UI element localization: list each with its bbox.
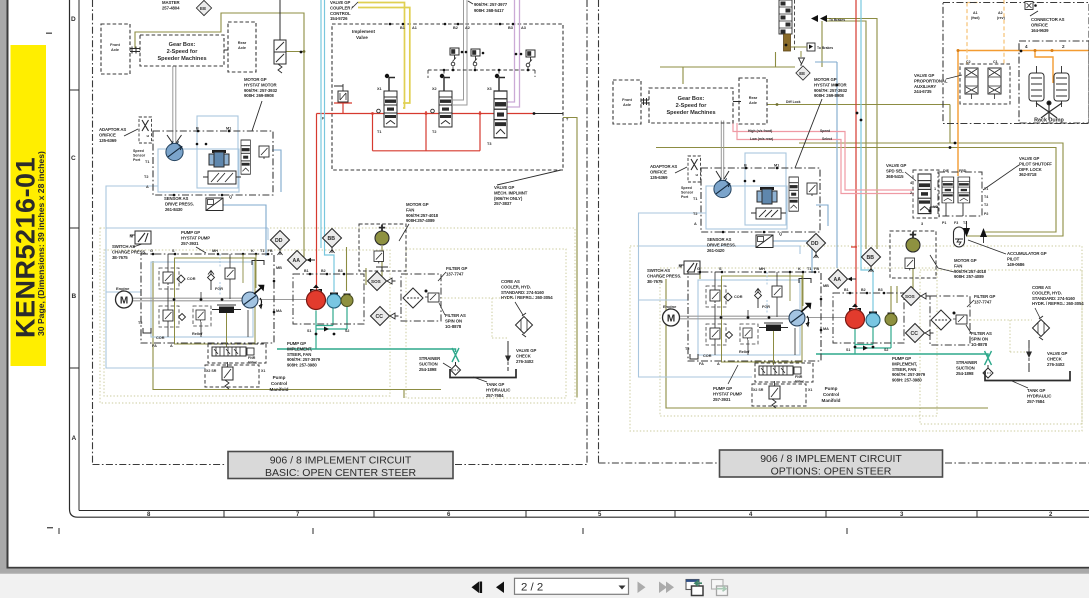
svg-text:K: K (251, 249, 254, 253)
svg-text:T1: T1 (693, 197, 697, 201)
ruler tick a (223, 511, 225, 518)
svg-text:X2: X2 (432, 87, 437, 91)
filter gp dash-dot box (401, 274, 441, 321)
left sheet border dash-dot left (92, 0, 94, 465)
svg-text:Q: Q (779, 232, 782, 236)
pilot shutoff spool 2 (958, 177, 970, 203)
left sheet border dash-dot right (586, 0, 588, 465)
gauge cyan circle (327, 293, 341, 309)
right motor box dots (722, 167, 779, 234)
svg-text:A: A (694, 222, 697, 226)
svg-text:M: M (667, 314, 675, 325)
node CC diamond right (906, 324, 934, 343)
right pump check diamond (755, 292, 762, 299)
wire light blue drain (106, 228, 268, 240)
leader spd sel (905, 172, 916, 181)
fnr valve block (212, 347, 254, 356)
sheet frame zone column line inner (79, 0, 1089, 511)
svg-text:BASIC: OPEN CENTER STEER: BASIC: OPEN CENTER STEER (265, 467, 417, 479)
filter diamond (403, 288, 423, 308)
proportional aux dashed box (960, 64, 1010, 104)
svg-text:Front: Front (110, 43, 120, 47)
svg-text:T2: T2 (138, 321, 142, 325)
wire teal arrow right (863, 346, 868, 351)
leader fan right (930, 255, 954, 272)
svg-text:2-Speed for: 2-Speed for (676, 103, 708, 109)
check valve symbol (505, 352, 511, 365)
left sheet border dash-dot bottom (93, 464, 588, 466)
leader adaptor right (675, 167, 687, 173)
node AA diamond (288, 251, 316, 270)
spool stem 1 (385, 74, 395, 91)
brake control valve (274, 40, 286, 73)
right pump valve upper (772, 286, 782, 299)
svg-text:Select: Select (822, 137, 833, 141)
wire to brake valve from top (279, 0, 281, 40)
svg-text:Valve: Valve (248, 361, 257, 365)
leader adaptor (124, 129, 138, 136)
solenoid drain circles (451, 62, 530, 67)
implement spool 1 (384, 91, 397, 127)
svg-text:A1: A1 (412, 26, 417, 30)
wire implement T link (534, 113, 563, 115)
implement port labels (377, 26, 526, 146)
left cor dashed sub-box 2 (159, 306, 179, 327)
svg-text:COR: COR (703, 354, 712, 358)
pump valve upper right (225, 268, 235, 281)
ruler tick b (373, 511, 375, 518)
right pump olive inner (790, 272, 803, 306)
implement solenoid 1 (450, 48, 459, 62)
shaft arrows (167, 135, 182, 143)
svg-text:B3: B3 (338, 269, 343, 273)
MH pilot dashed stub right (766, 272, 768, 314)
toolbar top divider (0, 573, 1089, 574)
right pump inner blue box (698, 280, 800, 355)
right servo olive drop (773, 331, 775, 365)
relief stub (334, 84, 343, 91)
fan motor symbol (375, 225, 389, 246)
svg-text:F3: F3 (954, 221, 958, 225)
right gauge red circle (846, 304, 865, 329)
svg-text:AA: AA (834, 277, 842, 283)
svg-text:Front: Front (622, 98, 632, 102)
right pump valve lower mid (743, 328, 752, 340)
wire brake stack down (800, 64, 802, 66)
svg-text:T3: T3 (487, 142, 491, 146)
right dotted olive tail frame (920, 270, 1082, 424)
right dotted olive outer frame (630, 246, 1082, 431)
svg-text:FB: FB (814, 267, 819, 271)
svg-text:T1: T1 (145, 160, 149, 164)
right motor control valve (751, 208, 786, 219)
right fan dashed box (890, 231, 936, 278)
wire teal suction main right (816, 354, 988, 356)
svg-text:T2: T2 (144, 175, 148, 179)
right pump inner olive box (722, 276, 803, 362)
right cor dashed sub-box 2 (706, 324, 726, 345)
svg-text:MA: MA (823, 327, 829, 331)
svg-text:FOR: FOR (215, 287, 223, 291)
wire yellow inner (358, 8, 410, 104)
leader pump label (196, 247, 206, 253)
page left border (7, 0, 9, 569)
right shaft arrows (716, 171, 729, 179)
svg-text:2: 2 (910, 191, 912, 195)
implement valve dashed box (332, 24, 563, 170)
node EE diamond right (796, 66, 810, 80)
svg-text:X1: X1 (808, 388, 812, 392)
svg-text:4: 4 (1025, 44, 1028, 49)
zone separator tick 2 (70, 227, 80, 229)
FB bracket (252, 261, 264, 266)
pilot shutoff stubs (930, 203, 963, 216)
node AA diamond right (829, 270, 857, 289)
right pump servo piston (759, 323, 788, 331)
junction dots left pump ports (152, 51, 346, 336)
switch symbol right (679, 261, 701, 274)
spd sel valve dashed box (913, 170, 939, 218)
leader cooler right (1035, 308, 1040, 318)
gauge group dash-dot box (293, 274, 364, 324)
flow arrow up (980, 228, 987, 237)
svg-text:B: B (72, 293, 77, 300)
leader switch (133, 244, 142, 247)
right filter diamond (931, 310, 951, 330)
node BB diamond (323, 229, 342, 254)
svg-text:Axle: Axle (749, 101, 757, 105)
svg-text:Relief: Relief (192, 332, 203, 336)
node BB diamond right (862, 248, 881, 273)
brake valve stack top right (779, 0, 792, 34)
svg-text:High (n/s front): High (n/s front) (748, 129, 772, 133)
right filter spin-on (953, 312, 968, 325)
svg-text:Rear: Rear (238, 41, 247, 45)
svg-text:MASTER257-4804: MASTER257-4804 (162, 0, 181, 10)
right FB bracket (799, 279, 811, 284)
cooler dotted links right (970, 320, 1032, 352)
junction dots implement ports (389, 23, 515, 26)
svg-text:Diff Lock: Diff Lock (786, 100, 801, 104)
svg-text:X2 SR: X2 SR (206, 369, 217, 373)
svg-text:DIF: DIF (943, 169, 950, 173)
svg-text:COR: COR (187, 277, 196, 281)
svg-text:FOR: FOR (762, 305, 770, 309)
right pump inner wires (715, 272, 795, 355)
svg-text:Axle: Axle (623, 103, 631, 107)
svg-text:X3: X3 (487, 87, 492, 91)
right travel motor circle (714, 178, 731, 197)
left motor box dots (173, 130, 231, 197)
fan control valve (374, 251, 384, 263)
print alignment tick 2 (312, 528, 314, 534)
leader tank (473, 377, 487, 382)
registration dash top-left (46, 33, 52, 34)
to brakes arrows upper (811, 15, 845, 22)
rear axle box (228, 22, 256, 72)
fan motor dashed box (359, 224, 406, 271)
svg-text:T4: T4 (984, 195, 988, 199)
right motor spool (789, 177, 798, 211)
node CC diamond (371, 307, 399, 326)
svg-text:X1: X1 (261, 369, 265, 373)
node EE diamond left (196, 0, 211, 15)
right vickers cylinder (757, 187, 777, 204)
rack dump spool 1 (1029, 73, 1044, 101)
hystat motor dash-dot box (153, 131, 273, 195)
right motor port labels (693, 164, 779, 227)
right pump port labels (697, 267, 829, 366)
arrow stubs (967, 221, 984, 243)
right gauge cyan circle (866, 312, 880, 328)
svg-text:BB: BB (328, 236, 336, 242)
wire brake to box (791, 47, 807, 57)
implement spool 3 (494, 91, 507, 138)
junction dot red 2 (425, 112, 428, 115)
svg-text:Engine: Engine (663, 304, 677, 309)
svg-text:A: A (72, 435, 77, 442)
wire olive big loop inner (656, 148, 1056, 233)
svg-text:G: G (697, 267, 700, 271)
implement spool 2 (439, 91, 452, 127)
motor spool (241, 140, 250, 174)
right fan control valve (905, 258, 915, 270)
svg-text:SOS: SOS (905, 294, 915, 299)
yellow sticky note label (11, 45, 47, 366)
wire olive brake valve to junction (285, 51, 304, 53)
engine M circle (116, 291, 133, 308)
svg-text:MB: MB (823, 284, 829, 288)
svg-text:COR: COR (734, 295, 743, 299)
implement relief valve (338, 91, 348, 102)
svg-text:2-Speed for: 2-Speed for (167, 49, 199, 55)
T2 port bracket left (138, 321, 151, 333)
wire mid blue right vertical (815, 62, 837, 268)
ruler tick c (525, 511, 527, 518)
junction dot T (533, 112, 536, 115)
wire light blue motor loop (106, 186, 205, 368)
prop aux valve 2 (988, 68, 1001, 99)
right sheet border dash-dot bottom (599, 462, 1089, 464)
svg-text:30 Page, (Dimensions: 39 inche: 30 Page, (Dimensions: 39 inches x 28 inc… (36, 151, 46, 336)
right motor inner blue box tall (745, 153, 786, 225)
leader tank right (1012, 381, 1028, 388)
wire red drop to gauge (316, 114, 318, 291)
gauge port labels (304, 269, 349, 333)
toolbar last-page button disabled (659, 582, 674, 594)
svg-text:906/7H: 257-3977908H: 268-5417: 906/7H: 257-3977908H: 268-5417 (474, 2, 508, 13)
leader cooler (515, 302, 523, 315)
leader connector (1030, 11, 1038, 16)
svg-text:Valve: Valve (795, 380, 804, 384)
right fnr manifold dashed box (755, 363, 813, 382)
pump servo piston (212, 305, 241, 313)
wire cyan right sheet (861, 0, 873, 312)
left relief dashed sub-box (193, 306, 211, 326)
svg-text:B2: B2 (453, 26, 458, 30)
gear box (140, 35, 224, 66)
right gauge labels (844, 288, 888, 352)
travel motor circle (166, 141, 183, 160)
pump arrow symbol (208, 271, 214, 291)
left cor dashed sub-box 1 (159, 268, 179, 289)
svg-text:MH: MH (759, 267, 765, 271)
wire olive top rails (822, 19, 877, 250)
svg-text:DD: DD (275, 238, 283, 244)
wire mid blue motor stub right (816, 205, 828, 226)
pump valve lower left (163, 310, 173, 323)
svg-text:S1: S1 (307, 329, 311, 333)
motor port labels (144, 127, 231, 190)
gearbox output shaft double line (173, 66, 176, 144)
toolbar previous-view icon (686, 580, 703, 596)
implement solenoid 3 (526, 50, 535, 64)
left pump olive inner (243, 254, 256, 288)
svg-text:T1: T1 (377, 130, 381, 134)
right pump valve lower left (710, 328, 720, 341)
caption box right sheet (720, 450, 943, 477)
rack dump star symbol (1036, 101, 1062, 120)
svg-text:A: A (170, 344, 173, 348)
right pump dash-dot box (688, 272, 821, 361)
connector orifice square (1025, 2, 1037, 10)
status strip below page (0, 569, 1089, 573)
ruler tick d (674, 511, 676, 518)
wire pink speed high (733, 121, 914, 191)
left pump inner wires (168, 254, 248, 337)
rack dump spool 2 (1054, 73, 1069, 101)
wire mid blue sensor link right (773, 241, 812, 273)
pilot junction dots (443, 51, 530, 72)
svg-text:Axle: Axle (238, 46, 246, 50)
left dotted olive pump frame (104, 250, 390, 396)
strainer right (983, 351, 993, 378)
wire red relief stub (334, 103, 352, 114)
leader fan label (399, 224, 409, 241)
svg-text:FRD: FRD (959, 169, 967, 173)
wire olive gauge drop right (890, 286, 892, 312)
leader strainer (443, 363, 451, 368)
svg-text:3: 3 (921, 222, 923, 226)
right motor inner blue box (706, 186, 787, 229)
junction dots rack (968, 50, 1022, 128)
svg-text:FA: FA (152, 344, 157, 348)
wire olive fan filter spine (366, 246, 404, 398)
cooler olive dotted links (441, 298, 515, 338)
pilot shutoff port labels (933, 187, 988, 225)
wire olive gauge drop (346, 247, 348, 291)
pilot dashed link (428, 67, 535, 79)
leader top parts (352, 1, 473, 8)
cooler symbol right (1033, 316, 1050, 340)
svg-text:A: A (146, 185, 149, 189)
wire olive big loop outer (799, 143, 1063, 236)
rack dump dash-dot box (943, 3, 1089, 124)
svg-text:B1: B1 (400, 26, 405, 30)
toolbar next-view icon disabled (712, 580, 728, 596)
sensor symbol right (756, 235, 773, 248)
sensor symbol (206, 198, 223, 211)
zone separator tick 1 (70, 89, 80, 91)
svg-text:A3: A3 (521, 26, 526, 30)
rear axle box right (739, 78, 767, 124)
node DD diamond right (807, 234, 826, 259)
wire olive implement T drop right side (563, 118, 577, 398)
wire teal gauge collectors right (855, 325, 891, 355)
pump group inner blue box (151, 262, 253, 337)
svg-text:1: 1 (934, 187, 936, 191)
wire red implement main (317, 113, 535, 115)
print alignment tick 1 (58, 528, 60, 534)
svg-text:X1: X1 (377, 87, 382, 91)
engine shaft double line (133, 298, 246, 301)
node DD diamond (271, 231, 290, 256)
print alignment tick 4 (846, 528, 848, 534)
junction dots right top (785, 44, 957, 149)
check valve right (1026, 348, 1032, 361)
engine M circle right (663, 309, 680, 326)
ruler tick e (825, 511, 827, 518)
svg-text:A2: A2 (465, 26, 470, 30)
spool stem 3 (495, 74, 505, 91)
motor group inner blue box tall (197, 116, 238, 188)
motor small valve (259, 146, 269, 159)
svg-text:Axle: Axle (111, 48, 119, 52)
dash-dot stub beside brake stack (794, 0, 796, 52)
right filter dash-dot box (930, 296, 970, 345)
right fnr solenoid valve (769, 381, 780, 408)
svg-text:2 / 2: 2 / 2 (521, 582, 543, 594)
ruler tick f (976, 511, 978, 518)
right fan motor symbol (906, 232, 920, 253)
orifice X symbol (139, 117, 152, 143)
svg-text:Speed: Speed (820, 129, 830, 133)
leader filter as right (966, 325, 971, 333)
right sheet border dash-dot left (598, 0, 600, 463)
pump port labels top (150, 249, 282, 348)
svg-text:COR: COR (156, 336, 165, 340)
svg-text:Rear: Rear (749, 96, 758, 100)
right gauge olive circle (885, 313, 897, 326)
svg-text:T1: T1 (807, 267, 811, 271)
svg-text:2: 2 (1062, 44, 1065, 49)
svg-text:S2: S2 (884, 348, 888, 352)
page bottom border (7, 567, 1089, 569)
vickers cylinder (209, 150, 229, 167)
svg-text:B1: B1 (844, 288, 849, 292)
zone separator tick 3 (70, 367, 80, 369)
axle shaft stubs (130, 47, 228, 54)
pump check diamond (208, 274, 215, 281)
svg-text:SOS: SOS (371, 279, 381, 284)
svg-text:P2: P2 (984, 212, 988, 216)
brake check outline (799, 58, 805, 64)
wire teal gauge collectors (316, 306, 347, 350)
wire cyan steer pair (321, 0, 334, 292)
implement solenoid 2 (471, 49, 480, 63)
svg-text:T2: T2 (432, 130, 436, 134)
svg-text:P1: P1 (942, 221, 946, 225)
servo olive drop (226, 313, 228, 347)
toolbar background (0, 574, 1089, 598)
left dotted olive tail frame (406, 249, 566, 398)
svg-text:T2: T2 (984, 203, 988, 207)
toolbar previous-page button (496, 582, 504, 594)
wire light blue motor loop right (639, 213, 753, 377)
brake stack bronze column (784, 34, 791, 51)
wire violet pair (497, 0, 520, 107)
pump valve lower mid (196, 310, 205, 322)
